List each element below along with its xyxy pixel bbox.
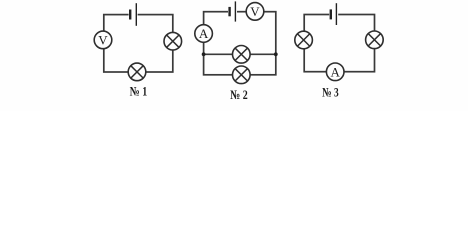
voltmeter V2 [246, 3, 264, 21]
junction node right of branch [274, 52, 278, 56]
label № 3 [322, 84, 339, 99]
lamp EL5 (left side of circuit 3) [295, 31, 313, 49]
ammeter A2 [326, 63, 344, 81]
lamp EL4 (bottom of circuit 2) [233, 66, 251, 84]
circuit 2 loop wire [204, 12, 276, 75]
battery GB2 [228, 1, 237, 21]
svg-text:№ 2: № 2 [230, 87, 248, 102]
ammeter A1 [195, 25, 213, 43]
junction node left of branch [202, 52, 206, 56]
svg-text:A: A [199, 26, 209, 41]
svg-text:V: V [250, 4, 260, 19]
svg-text:№ 3: № 3 [322, 84, 339, 99]
voltmeter V1 [94, 31, 112, 49]
label № 2 [230, 87, 248, 102]
battery GB1 [129, 3, 138, 26]
svg-text:№ 1: № 1 [130, 84, 148, 99]
circuit 3 loop wire [304, 15, 374, 72]
circuit 1 loop wire [104, 15, 173, 72]
lamp EL3 (middle branch of circuit 2) [233, 46, 251, 64]
lamp EL2 (bottom of circuit 1) [128, 63, 146, 81]
lamp EL6 (right side of circuit 3) [366, 31, 384, 49]
wire middle branch of circuit 2 [204, 53, 276, 55]
label № 1 [130, 84, 148, 99]
battery GB3 [329, 3, 338, 25]
svg-text:V: V [98, 32, 108, 47]
svg-text:A: A [331, 64, 341, 79]
lamp EL1 (right side of circuit 1) [164, 32, 182, 50]
